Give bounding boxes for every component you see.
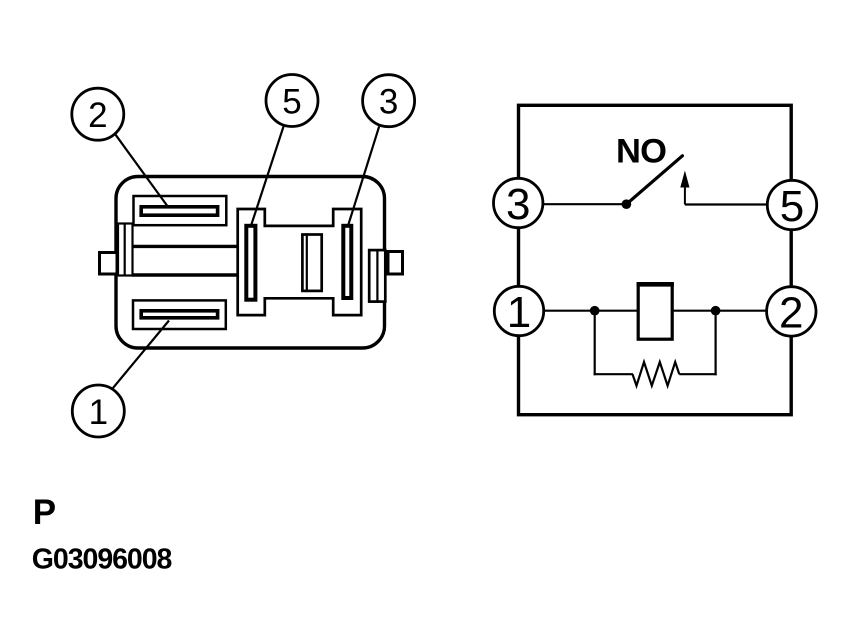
svg-text:NO: NO — [616, 133, 666, 171]
terminal circle 3 — [494, 178, 543, 229]
svg-text:5: 5 — [780, 182, 804, 231]
wire node 1 to coil — [544, 310, 639, 312]
resistor branch right drop wire — [714, 311, 716, 376]
coil junction dot left — [590, 306, 600, 316]
pin 1 terminal slot — [141, 311, 217, 318]
terminal circle 2 — [767, 287, 816, 338]
svg-text:3: 3 — [506, 180, 530, 229]
svg-text:P: P — [33, 493, 56, 532]
svg-text:1: 1 — [507, 288, 531, 337]
schematic frame — [519, 105, 792, 414]
resistor lead left — [594, 373, 633, 375]
pin 1 cavity — [133, 300, 226, 329]
svg-text:1: 1 — [89, 393, 108, 432]
pin 3 terminal slot — [343, 226, 351, 298]
relay connector body outline — [116, 177, 385, 349]
svg-text:G03096008: G03096008 — [32, 543, 172, 575]
resistor branch left drop wire — [594, 311, 596, 376]
right mounting tab — [388, 252, 403, 275]
switch arrow — [680, 171, 689, 205]
pin 2 cavity — [134, 196, 227, 225]
callout circle 3 — [363, 75, 415, 127]
switch blade (NO contact) — [626, 156, 682, 204]
central keying rib — [302, 233, 321, 292]
leader line to pin 3 — [349, 127, 380, 225]
center bracket (pins 5 and 3 housing) — [238, 209, 362, 315]
leader line to pin 2 — [115, 134, 167, 205]
resistor zigzag — [633, 362, 680, 386]
left locking strip — [118, 223, 133, 276]
leader line to pin 1 — [113, 321, 169, 389]
right locking strip — [369, 249, 385, 303]
center rib bottom line — [133, 273, 238, 277]
pin 5 terminal slot — [246, 226, 255, 300]
svg-text:2: 2 — [779, 288, 803, 337]
terminal circle 5 — [767, 180, 816, 231]
wire node 3 to switch contact — [542, 203, 626, 205]
svg-text:5: 5 — [282, 82, 301, 121]
svg-text:3: 3 — [379, 83, 398, 122]
wire switch to node 5 — [685, 203, 768, 205]
switch contact dot — [622, 199, 632, 209]
callout circle 2 — [72, 88, 124, 140]
leader line to pin 5 — [252, 126, 284, 225]
coil junction dot right — [711, 306, 721, 316]
relay coil — [637, 284, 674, 339]
terminal circle 1 — [494, 286, 543, 337]
callout circle 1 — [72, 385, 124, 437]
pin 2 terminal slot — [141, 207, 217, 215]
resistor lead right — [679, 373, 716, 375]
wire coil to node 2 — [672, 310, 767, 312]
left mounting tab — [100, 253, 118, 275]
callout circle 5 — [266, 75, 318, 127]
svg-text:2: 2 — [88, 96, 107, 135]
center rib top line — [133, 245, 238, 248]
